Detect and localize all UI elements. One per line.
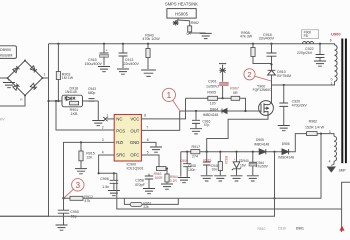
- svg-text:R905: R905: [207, 90, 216, 94]
- capacitor C901: [206, 76, 228, 100]
- svg-text:ZD940: ZD940: [239, 159, 249, 163]
- zener ZD940: [231, 151, 249, 181]
- wire pin 3 RD: [64, 142, 115, 198]
- resistor R962: [305, 120, 325, 136]
- capacitor C958: [135, 174, 155, 194]
- diode D906: [273, 142, 294, 159]
- svg-text:OUT: OUT: [130, 128, 139, 133]
- svg-text:0R: 0R: [233, 91, 238, 95]
- transformer primary winding: [272, 44, 338, 85]
- svg-text:R919: R919: [203, 159, 211, 163]
- wire bridge bottom to edge: [0, 96, 25, 107]
- svg-text:22k: 22k: [143, 205, 149, 209]
- capacitor C950: [56, 198, 79, 230]
- svg-text:R907: R907: [230, 87, 239, 91]
- svg-text:100R: 100R: [155, 176, 164, 180]
- svg-text:6: 6: [147, 138, 149, 142]
- svg-text:3: 3: [76, 181, 81, 190]
- svg-text:n: n: [21, 98, 23, 102]
- wire MOSFET source sense: [207, 115, 268, 152]
- svg-text:VCC: VCC: [130, 117, 139, 122]
- fuse F900 FB: [301, 30, 318, 44]
- resistor R908: [240, 31, 272, 64]
- svg-text:GND: GND: [130, 140, 140, 145]
- capacitor C918: [259, 33, 277, 70]
- capacitor C943: [83, 87, 105, 126]
- svg-text:470pF: 470pF: [135, 183, 146, 187]
- pin 1 NC with X: [103, 117, 114, 121]
- svg-text:7: 7: [146, 126, 148, 130]
- resistor R915: [75, 141, 95, 174]
- transformer secondary winding: [330, 134, 337, 166]
- SMPS heatsink HS905: [165, 1, 198, 26]
- svg-text:D905: D905: [256, 138, 264, 142]
- svg-text:2: 2: [102, 126, 104, 130]
- svg-text:33n/400V: 33n/400V: [259, 37, 275, 41]
- diode D910: [268, 63, 292, 103]
- wire bridge + output: [43, 77, 49, 79]
- wire sense line A: [62, 134, 321, 200]
- svg-text:SMPS HEATSINK: SMPS HEATSINK: [165, 1, 198, 6]
- svg-text:5: 5: [147, 150, 149, 154]
- capacitor C940: [201, 152, 219, 181]
- svg-text:22n/400V: 22n/400V: [124, 62, 140, 66]
- svg-text:C906: C906: [100, 177, 109, 181]
- svg-text:4: 4: [102, 150, 104, 154]
- resistor R943: [141, 33, 160, 76]
- svg-text:220p/2kV: 220p/2kV: [297, 51, 313, 55]
- resistor R920: [214, 151, 228, 181]
- svg-text:ICE1QS01: ICE1QS01: [127, 167, 144, 171]
- bridge rectifier DB900: [7, 60, 44, 97]
- svg-text:D901: D901: [296, 227, 304, 231]
- resistor R962 0R heatsink: [187, 21, 212, 38]
- svg-text:274: 274: [192, 155, 198, 159]
- wire PCS loop: [56, 101, 114, 130]
- svg-text:R917: R917: [192, 145, 201, 149]
- wire main left vertical: [0, 44, 49, 217]
- svg-text:470k 1/2W: 470k 1/2W: [142, 37, 160, 41]
- svg-text:IM8D4148: IM8D4148: [203, 113, 218, 117]
- ground at bridge left: [3, 78, 15, 88]
- capacitor C915: [85, 43, 111, 72]
- resistor R912: [70, 195, 93, 203]
- svg-text:8: 8: [144, 114, 146, 118]
- ground pin 6: [141, 142, 162, 152]
- wire box bottom right: [341, 209, 343, 232]
- svg-text:OFC: OFC: [130, 153, 139, 158]
- svg-text:1: 1: [331, 82, 333, 86]
- svg-text:47k: 47k: [84, 199, 90, 203]
- svg-text:12K: 12K: [86, 155, 93, 159]
- svg-text:C901: C901: [208, 79, 217, 83]
- IC900 ICE1QS01: [114, 115, 143, 171]
- resistor R905: [207, 90, 217, 105]
- upper drive rail: [186, 98, 246, 111]
- wire pin 4 SRC: [99, 155, 117, 173]
- wire aux down: [180, 152, 182, 177]
- red circle 1: [162, 88, 179, 110]
- red circle 2: [244, 69, 271, 81]
- svg-text:KBU8M: KBU8M: [0, 53, 12, 57]
- svg-text:1: 1: [44, 73, 46, 77]
- capacitor C916: [190, 110, 210, 134]
- svg-text:HS905: HS905: [175, 11, 188, 16]
- svg-text:1N4148: 1N4148: [65, 90, 77, 94]
- bottom annotation texts: [258, 227, 305, 231]
- resistor R963: [141, 155, 167, 180]
- capacitor C944: [247, 151, 269, 181]
- svg-text:R910: R910: [258, 227, 266, 231]
- svg-text:SMP: SMP: [339, 168, 347, 172]
- svg-text:10n: 10n: [212, 167, 218, 171]
- parallel group D918 / R901: [47, 87, 82, 116]
- svg-text:150u/400V: 150u/400V: [85, 62, 103, 66]
- svg-text:NC: NC: [116, 117, 122, 122]
- svg-text:0.1R: 0.1R: [170, 179, 178, 183]
- svg-text:1KB: 1KB: [71, 112, 78, 116]
- svg-text:U900: U900: [331, 32, 341, 37]
- chassis star symbol: [173, 20, 179, 25]
- diode D904: [203, 107, 247, 117]
- capacitor C908: [178, 151, 196, 183]
- resistor R917: [191, 145, 208, 159]
- red circle 3: [64, 179, 84, 198]
- transformer core: [341, 39, 347, 164]
- gate drive wire: [180, 110, 261, 112]
- wire line B: [117, 173, 350, 209]
- wire pin 8 VCC: [141, 98, 185, 119]
- svg-text:IMSD4148: IMSD4148: [278, 155, 294, 159]
- svg-text:RZI: RZI: [116, 140, 123, 145]
- wire pin 7 OUT: [141, 111, 179, 130]
- svg-text:1M 1W: 1M 1W: [62, 76, 74, 80]
- bridge rectifier DB900 label box: [0, 46, 16, 59]
- svg-text:47k 3W: 47k 3W: [240, 35, 253, 39]
- loop resistor R951: [124, 198, 178, 209]
- capacitor C913: [117, 43, 139, 75]
- svg-text:2: 2: [247, 70, 251, 79]
- pin number labels: [102, 114, 149, 155]
- resistor R907: [230, 87, 239, 101]
- svg-text:C909: C909: [180, 159, 188, 163]
- svg-text:PCS: PCS: [116, 128, 125, 133]
- svg-text:680p: 680p: [88, 91, 96, 95]
- secondary bus: [181, 134, 330, 152]
- capacitor C906: [98, 172, 120, 196]
- svg-text:FQP12N60C: FQP12N60C: [253, 88, 272, 92]
- svg-text:100n: 100n: [188, 168, 196, 172]
- svg-text:470p/2kV: 470p/2kV: [292, 104, 308, 108]
- red triangle marker: [339, 226, 344, 231]
- chassis star at C901: [219, 64, 226, 76]
- svg-text:6: 6: [330, 39, 332, 43]
- svg-text:4: 4: [329, 160, 331, 164]
- svg-text:D906: D906: [282, 142, 290, 146]
- svg-text:BYT54M: BYT54M: [277, 74, 291, 78]
- SMP arrow ground: [327, 167, 347, 173]
- MOSFET T900: [253, 84, 274, 115]
- svg-text:C950: C950: [70, 210, 79, 214]
- resistor R903: [56, 43, 73, 101]
- capacitor C920: [278, 84, 308, 131]
- svg-text:47p: 47p: [204, 123, 210, 127]
- svg-text:152R 1/4 W: 152R 1/4 W: [305, 125, 325, 129]
- svg-text:1u/50VJ: 1u/50VJ: [206, 84, 219, 88]
- svg-text:+: +: [106, 49, 108, 53]
- wire AC input left: [0, 77, 8, 79]
- svg-text:47u/50V: 47u/50V: [256, 165, 269, 169]
- resistor R964: [161, 167, 178, 189]
- wire top bus: [49, 43, 331, 45]
- svg-text:3: 3: [102, 138, 104, 142]
- svg-text:SRC: SRC: [116, 153, 125, 158]
- capacitor C922: [297, 43, 326, 67]
- svg-text:IM8D4148: IM8D4148: [254, 143, 269, 147]
- svg-text:C958: C958: [135, 178, 144, 182]
- svg-text:1.5n: 1.5n: [102, 185, 109, 189]
- wire bottom return: [0, 152, 275, 217]
- svg-text:16V: 16V: [240, 163, 247, 167]
- svg-text:120: 120: [210, 102, 216, 106]
- svg-text:1: 1: [167, 90, 172, 100]
- diode D905: [254, 138, 269, 154]
- svg-text:R920: R920: [224, 156, 228, 164]
- svg-text:C919: C919: [278, 227, 286, 231]
- svg-text:R962: R962: [309, 120, 318, 124]
- svg-text:D904: D904: [210, 107, 219, 111]
- svg-text:R962: R962: [191, 21, 199, 25]
- svg-text:DB900: DB900: [0, 48, 11, 52]
